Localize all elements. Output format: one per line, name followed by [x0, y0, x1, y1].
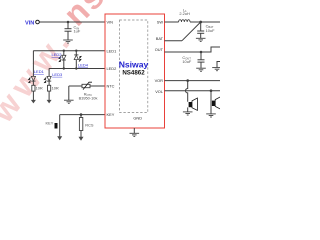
ground arrow (KEY) — [57, 136, 62, 140]
svg-text:KEY: KEY — [107, 112, 115, 117]
resistor RCS — [79, 115, 94, 138]
node A-LED4 — [75, 50, 77, 52]
svg-text:Nsiway: Nsiway — [119, 59, 149, 69]
svg-text:10uF: 10uF — [206, 28, 215, 33]
svg-text:NTC: NTC — [107, 84, 115, 89]
ground (IC GND) — [130, 133, 140, 136]
resistor 10R (LED3) — [48, 85, 59, 100]
ground (left speaker) — [183, 112, 193, 115]
ground (right edge) — [212, 68, 222, 71]
wire VIN net — [39, 21, 105, 23]
wire GND pin — [133, 128, 135, 133]
svg-text:LED2: LED2 — [107, 66, 117, 71]
resistor 10R (LED1) — [32, 85, 43, 100]
node B-LED4 — [75, 67, 77, 69]
wire BAT net — [165, 40, 183, 42]
ground arrow (LED3) — [47, 100, 52, 104]
capacitor C_OUT — [182, 52, 204, 68]
node VOL/speaker — [210, 89, 213, 92]
svg-text:SW: SW — [157, 20, 164, 25]
wire right-edge ground stub — [217, 62, 220, 68]
node B-LED2 — [63, 67, 65, 69]
wire VOL drop — [210, 91, 212, 114]
terminal VIN — [36, 20, 40, 24]
svg-text:10uF: 10uF — [182, 59, 191, 64]
wire NTC net — [69, 86, 105, 100]
ground arrow (LED1) — [31, 100, 36, 104]
capacitor C_BAT — [197, 22, 215, 38]
ground (NTC) — [64, 100, 74, 103]
speaker SPK-R (left symbol) — [188, 98, 198, 112]
svg-text:2.2uH: 2.2uH — [179, 11, 190, 16]
node VOR/speaker — [186, 79, 189, 82]
node BAT/L1/CBAT — [199, 21, 202, 24]
svg-text:LED2: LED2 — [52, 52, 63, 57]
LED LED2 — [52, 51, 66, 69]
svg-text:1uF: 1uF — [74, 28, 81, 33]
svg-text:LED4: LED4 — [78, 62, 89, 67]
speaker SPK-L (right symbol) — [212, 97, 221, 109]
svg-text:KEY: KEY — [46, 121, 54, 126]
svg-text:10R: 10R — [52, 86, 59, 91]
pushbutton KEY — [46, 115, 60, 137]
wire VOR drop with hop over VOL — [185, 81, 187, 102]
svg-text:VOL: VOL — [155, 89, 164, 94]
svg-text:VOR: VOR — [155, 78, 164, 83]
svg-text:VIN: VIN — [25, 20, 34, 26]
svg-text:LED3: LED3 — [52, 72, 63, 77]
svg-text:LED1: LED1 — [34, 69, 45, 74]
capacitor C_IN — [65, 22, 81, 40]
node OUT/COUT — [200, 51, 203, 54]
svg-text:BAT: BAT — [156, 36, 164, 41]
LED LED3 chain — [44, 69, 63, 86]
wire VOL net — [165, 90, 221, 92]
ground (CIN) — [63, 40, 73, 43]
ground arrow (RCS) — [79, 137, 84, 141]
wire BAT diagonal — [182, 22, 201, 41]
node KEY/RCS junction — [80, 113, 83, 116]
watermark — [0, 20, 80, 130]
inductor L1 — [179, 8, 190, 22]
LED LED4 — [74, 51, 89, 69]
thermistor Rntc — [79, 82, 98, 100]
wire OUT net — [165, 47, 221, 52]
svg-text:RCS: RCS — [85, 122, 94, 127]
node A-LED2 — [63, 50, 65, 52]
LED LED1 chain — [29, 51, 45, 86]
wire SW net — [165, 21, 179, 23]
svg-text:LED1: LED1 — [107, 48, 117, 53]
svg-text:VIN: VIN — [107, 20, 114, 25]
wire VOR net — [165, 80, 221, 82]
ground (CBAT) — [196, 38, 206, 41]
ground (COUT) — [196, 68, 206, 71]
op IC U1 NS4862 body — [105, 14, 165, 128]
ground (right speaker) — [206, 114, 216, 117]
dashed internal block — [120, 20, 148, 113]
svg-text:NS4862: NS4862 — [122, 70, 145, 77]
node VIN/CIN junction — [67, 21, 70, 24]
svg-text:OUT: OUT — [155, 47, 164, 52]
wire L1 to node — [190, 21, 220, 23]
svg-text:10R: 10R — [36, 86, 43, 91]
svg-text:B3950-10k: B3950-10k — [79, 96, 98, 101]
wire LED1-pin net (wire A) — [33, 50, 105, 52]
wire KEY net — [60, 114, 105, 116]
svg-text:GND: GND — [133, 115, 142, 120]
wire LED2-pin net (wire B) — [49, 68, 105, 70]
